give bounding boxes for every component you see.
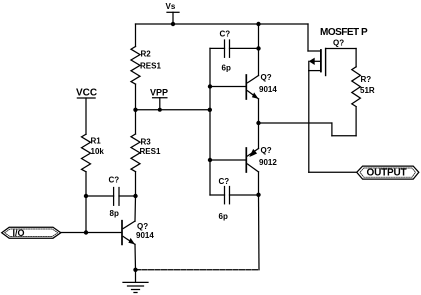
svg-text:VPP: VPP [150,88,168,98]
svg-text:C?: C? [220,30,231,39]
wire top rail corner down to R2 [135,24,137,47]
resistor R2 [131,47,140,85]
power symbol VPP [153,98,167,110]
svg-text:9014: 9014 [259,85,277,94]
resistor R1 [82,134,91,172]
svg-text:R2: R2 [141,50,152,59]
resistor R3 [131,134,140,172]
svg-text:C?: C? [219,177,230,186]
junction on I/O wire [84,230,88,234]
svg-text:8p: 8p [110,209,119,218]
svg-text:6p: 6p [222,64,231,73]
wire Q1 emitter to mid node [258,99,260,123]
svg-text:Q?: Q? [137,222,148,231]
svg-text:RES1: RES1 [140,147,161,156]
junction mid node [256,121,260,125]
transistor Q2 (Q? 9012 PNP) [246,148,258,172]
svg-text:9012: 9012 [259,158,277,167]
svg-text:Q?: Q? [261,73,272,82]
transistor Q3 (Q? 9014 NPN lower-left) [122,221,135,245]
wire top rail corner down to MOSFET drain [307,24,309,51]
capacitor C-mid (C? 6p) [210,187,259,204]
capacitor C-top (C? 6p) [210,40,259,57]
junction ground node [133,268,137,272]
svg-text:Q?: Q? [261,146,272,155]
svg-text:51R: 51R [360,86,375,95]
wire MOSFET gate lead [326,48,357,50]
wire Q1 base [210,86,246,88]
svg-text:RES1: RES1 [140,62,161,71]
svg-text:I/O: I/O [13,228,25,238]
power symbol VCC [77,98,95,134]
svg-text:R3: R3 [141,138,152,147]
junction C-mid right [256,193,260,197]
capacitor C-left (C? 8p) [86,188,136,206]
wire mid node to gate resistor step [259,122,332,124]
wire mid node down to Q2 emitter [258,123,260,149]
port flag I/O [2,227,61,238]
wire Q2 base [210,159,246,161]
wire ground rail [136,269,260,271]
svg-text:R?: R? [361,75,372,84]
wire to OUTPUT flag [309,171,357,173]
svg-text:9014: 9014 [136,231,154,240]
wire ground rail corner up to Q2 collector [258,195,261,270]
svg-text:R1: R1 [91,137,102,146]
wire step down [331,123,333,136]
junction Q1 base tap [208,84,212,88]
wire R3 bottom to C-left node [135,172,137,196]
junction C-left left end [84,194,88,198]
wire R2 bottom to VPP node [135,84,137,110]
wire gate lead down to R? top [355,49,357,67]
wire step up to R? bottom [355,107,357,136]
power symbol Vs [167,12,179,24]
svg-text:OUTPUT: OUTPUT [367,168,407,179]
junction Q2 base tap [208,158,212,162]
svg-text:Q?: Q? [333,39,344,48]
svg-text:10k: 10k [91,147,105,156]
wire MOSFET source down to OUTPUT (crosses mid wire, no junction) [308,71,310,173]
ground [123,270,148,293]
junction at VPP stub [158,108,162,112]
svg-text:Vs: Vs [166,2,176,11]
wire step right [332,135,356,137]
junction VPP rail right [208,108,212,112]
svg-text:6p: 6p [219,212,228,221]
junction C-left right end [133,194,137,198]
svg-text:VCC: VCC [76,88,97,99]
svg-text:C?: C? [109,176,120,185]
wire C-top junction to Q1 collector [258,48,260,75]
wire C-left node down to Q3 collector [134,196,137,221]
resistor R? 51R [352,67,361,107]
port flag OUTPUT [357,166,419,179]
junction top rail / C-top column [256,22,260,26]
junction at Vs on top rail [171,22,175,26]
wire Q2 collector down to C-mid node [258,172,260,195]
junction VPP rail left [133,108,137,112]
wire R1 bottom to C-left node [85,172,87,196]
wire VPP node down to R3 [135,110,137,134]
svg-text:MOSFET P: MOSFET P [320,27,368,38]
wire Q3 emitter to ground rail [134,244,137,269]
junction C-top right at column [256,46,260,50]
wire top rail from R2 to MOSFET [136,23,309,25]
wire C-top left corner down (bias column) [209,48,211,195]
wire I/O to Q3 base [61,232,121,234]
wire top rail down to C-top junction [258,24,260,48]
transistor Q1 (Q? 9014 NPN upper) [246,75,258,99]
wire VCC column down to I/O wire [85,196,87,233]
mosfet Q4 (MOSFET P) [308,49,326,76]
wire VPP rail [136,109,210,111]
